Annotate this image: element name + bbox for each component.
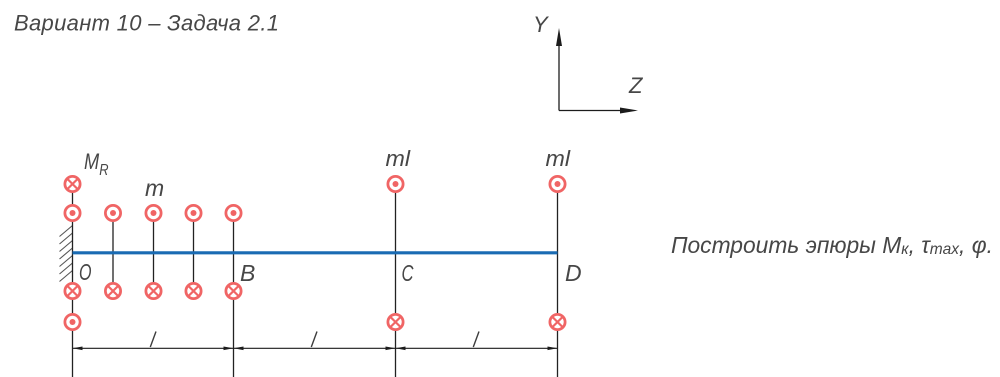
torque symbol: dot circle at B top	[226, 205, 241, 220]
wire: vertical line at C	[395, 184, 397, 377]
beam (shaft)	[73, 251, 558, 254]
svg-text:Y: Y	[533, 12, 549, 37]
axis Z (horizontal arrow)	[559, 108, 638, 114]
svg-text:C: C	[402, 260, 414, 286]
dimension line O-B	[73, 347, 234, 351]
svg-text:m: m	[145, 175, 164, 201]
svg-text:ml: ml	[546, 146, 572, 171]
torque symbol: cross circle m1 bottom	[105, 283, 120, 298]
torque symbol: dot circle m3 top	[186, 205, 201, 220]
svg-text:B: B	[240, 260, 255, 286]
torque symbol: dot circle at O bottom	[65, 314, 80, 329]
dimension line B-C	[234, 347, 396, 351]
dimension label l (B-C)	[311, 332, 317, 348]
wire: vertical line m1	[112, 213, 114, 291]
wire: vertical line at D	[557, 184, 559, 377]
svg-text:ml: ml	[386, 146, 412, 171]
torque symbol: cross circle at D bottom	[550, 314, 565, 329]
svg-text:D: D	[565, 260, 582, 286]
torque symbol: cross circle at O top (M_R)	[65, 176, 80, 191]
torque symbol: dot circle at C top (ml)	[388, 176, 403, 191]
torque symbol: cross circle m2 bottom	[146, 283, 161, 298]
dimension label l (O-B)	[150, 332, 156, 348]
dimension line C-D	[396, 347, 558, 351]
svg-text:Вариант 10 – Задача 2.1: Вариант 10 – Задача 2.1	[14, 11, 279, 36]
wire: vertical line m3	[193, 213, 195, 291]
torque symbol: cross circle at C bottom	[388, 314, 403, 329]
axis Y (vertical arrow)	[556, 28, 562, 111]
svg-text:O: O	[79, 259, 92, 285]
torque symbol: dot circle at O row2	[65, 205, 80, 220]
torque symbol: dot circle at D top (ml)	[550, 176, 565, 191]
torque symbol: cross circle m3 bottom	[186, 283, 201, 298]
svg-text:Построить эпюры Мк, τmax, φ.: Построить эпюры Мк, τmax, φ.	[671, 232, 993, 258]
wire: vertical line m2	[153, 213, 155, 291]
wall hatching at left support	[60, 226, 73, 282]
svg-text:MR: MR	[84, 149, 108, 179]
wire: vertical line at B	[233, 213, 235, 377]
svg-text:Z: Z	[628, 73, 644, 98]
torque symbol: cross circle at O row3	[65, 283, 80, 298]
wire: vertical line at O	[72, 184, 74, 377]
torque symbol: dot circle m2 top	[146, 205, 161, 220]
torque symbol: dot circle m1 top	[105, 205, 120, 220]
dimension label l (C-D)	[473, 332, 479, 348]
torque symbol: cross circle at B bottom	[226, 283, 241, 298]
